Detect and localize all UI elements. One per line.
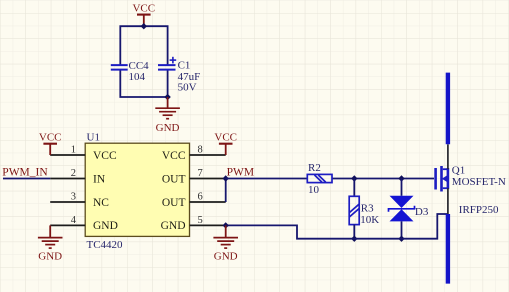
ground GND (pin 5) (213, 225, 238, 248)
wire source pin (thin) (447, 188, 449, 214)
pin 6 (190, 201, 226, 203)
wire R2 to gate (332, 178, 434, 180)
pin 3 (50, 201, 85, 203)
svg-text:IRFP250: IRFP250 (459, 204, 499, 216)
svg-text:4: 4 (71, 215, 77, 226)
svg-text:VCC: VCC (93, 150, 117, 162)
ground GND (below capacitors) (155, 97, 180, 119)
pin 2 (50, 178, 85, 180)
pin 5 (190, 224, 226, 226)
svg-text:GND: GND (38, 250, 62, 262)
wire source bus (thick) (446, 214, 450, 284)
svg-text:7: 7 (198, 168, 203, 179)
wire pin7 to pin6 tie (225, 179, 227, 203)
svg-text:IN: IN (93, 173, 106, 185)
power VCC (pin 8) (219, 144, 233, 155)
node junction top rail (141, 23, 147, 29)
wire PWM_IN to pin 2 (3, 178, 50, 180)
power VCC (top, above capacitors) (137, 15, 151, 27)
wire R3 bottom (353, 225, 355, 239)
svg-text:VCC: VCC (39, 131, 62, 143)
wire pin5 to source rail (226, 214, 448, 239)
wire top rail (120, 26, 167, 97)
node junction R3 bottom (351, 236, 357, 242)
svg-text:10K: 10K (360, 214, 379, 226)
svg-text:6: 6 (198, 192, 203, 203)
op-amp U1 body TC4420 (85, 143, 189, 236)
node junction pin 7 (223, 175, 229, 181)
capacitor CC4 (111, 65, 128, 70)
node junction caps bottom (164, 94, 170, 100)
svg-text:Q1: Q1 (452, 165, 465, 177)
svg-text:VCC: VCC (132, 3, 155, 15)
transistor Q1 MOSFET-N (436, 166, 448, 192)
resistor R3 (349, 196, 359, 224)
svg-text:104: 104 (129, 71, 146, 83)
diode D3 (bidirectional TVS) (390, 196, 414, 222)
svg-text:VCC: VCC (162, 150, 186, 162)
svg-text:GND: GND (214, 250, 238, 262)
svg-text:8: 8 (198, 145, 203, 156)
svg-text:PWM: PWM (227, 166, 254, 178)
svg-text:50V: 50V (178, 82, 197, 94)
wire pin7 to R2 (226, 178, 308, 180)
svg-text:D3: D3 (415, 206, 429, 218)
ground GND (pin 4) (38, 225, 63, 248)
pin 7 (190, 178, 226, 180)
svg-text:R3: R3 (361, 203, 374, 215)
svg-text:2: 2 (71, 168, 76, 179)
svg-text:C1: C1 (178, 60, 191, 72)
wire drain pin (thin) (447, 144, 449, 169)
svg-text:10: 10 (308, 184, 320, 196)
svg-text:OUT: OUT (162, 197, 186, 209)
svg-text:TC4420: TC4420 (87, 239, 124, 251)
wire D3 bottom (401, 221, 403, 238)
svg-text:GND: GND (156, 122, 180, 134)
capacitor C1 (polarized) (158, 65, 176, 70)
pin 4 (50, 224, 85, 226)
power VCC (pin 1) (43, 144, 57, 155)
resistor R2 (307, 174, 332, 182)
svg-text:OUT: OUT (162, 173, 186, 185)
svg-text:GND: GND (161, 220, 186, 232)
node junction R3 top (351, 175, 357, 181)
wire D3 top (401, 179, 403, 196)
svg-text:5: 5 (198, 215, 203, 226)
svg-text:1: 1 (71, 145, 76, 156)
svg-text:NC: NC (93, 197, 109, 209)
node junction D3 top (398, 175, 404, 181)
svg-text:MOSFET-N: MOSFET-N (452, 176, 506, 188)
svg-text:R2: R2 (308, 162, 321, 174)
svg-text:VCC: VCC (214, 131, 237, 143)
wire R3 top (353, 179, 355, 197)
pin 1 (50, 154, 85, 156)
pin 8 (190, 154, 226, 156)
wire drain bus (thick) (446, 73, 450, 145)
svg-text:U1: U1 (87, 132, 100, 144)
svg-text:PWM_IN: PWM_IN (2, 166, 48, 178)
node junction pin 5 (223, 222, 229, 228)
svg-text:GND: GND (93, 220, 118, 232)
svg-text:3: 3 (71, 192, 76, 203)
node junction D3 bottom (398, 236, 404, 242)
